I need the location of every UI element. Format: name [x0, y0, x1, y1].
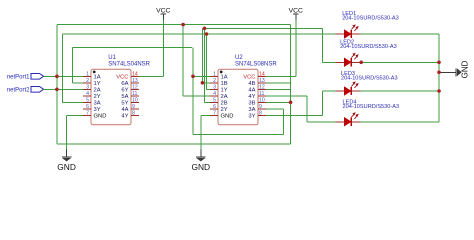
junction LED2 cathode	[359, 61, 363, 65]
LED LED4 204-10SURD/S530-A3	[335, 99, 399, 126]
port netPort2	[7, 87, 44, 94]
svg-text:6A: 6A	[121, 81, 128, 87]
svg-text:1Y: 1Y	[221, 88, 228, 94]
junction netPort2 node	[55, 88, 59, 92]
wire vertical x204.5 to U2 pin5 2B	[204, 28, 206, 102]
svg-text:3Y: 3Y	[94, 107, 101, 113]
wire U2 pin10 3B stub	[266, 101, 291, 103]
svg-text:14: 14	[259, 71, 265, 77]
LED LED1 204-10SURD/S530-A3	[335, 11, 399, 38]
junction netPort1 node	[55, 75, 59, 79]
wire vertical x62.5 to LED1 net	[62, 34, 64, 102]
wire netPort1 to U1 pin1 1A	[44, 75, 83, 77]
ground GND3	[439, 60, 469, 78]
wire U2 GND down to GND2	[200, 115, 202, 149]
wire U1 pin2 1Y stub	[73, 82, 84, 84]
svg-text:5: 5	[213, 97, 216, 103]
svg-text:10: 10	[259, 97, 265, 103]
svg-text:3B: 3B	[248, 101, 255, 107]
wire vertical x72.5	[72, 47, 74, 82]
wire LED2 anode	[323, 61, 336, 63]
svg-text:GND: GND	[221, 114, 234, 120]
svg-text:5: 5	[86, 97, 89, 103]
svg-text:3: 3	[86, 84, 89, 90]
wire LED2 cathode to bus	[361, 61, 439, 63]
junction U2 1A node	[191, 75, 195, 79]
svg-text:6: 6	[213, 104, 216, 110]
wire VCC2 drop x295.8	[295, 20, 297, 77]
svg-text:13: 13	[132, 78, 138, 84]
svg-text:netPort1: netPort1	[7, 75, 30, 81]
svg-text:4B: 4B	[248, 81, 255, 87]
wire U2 pin12 4A right	[266, 88, 291, 90]
LED LED2 204-10SURD/S530-A3	[335, 39, 396, 66]
svg-text:10: 10	[132, 97, 138, 103]
svg-text:4: 4	[86, 91, 89, 97]
svg-text:9: 9	[259, 104, 262, 110]
svg-text:12: 12	[259, 84, 265, 90]
svg-text:204-10SURD/S530-A3: 204-10SURD/S530-A3	[341, 76, 398, 82]
svg-text:204-10SURD/S530-A3: 204-10SURD/S530-A3	[340, 44, 397, 50]
svg-text:U2: U2	[235, 55, 243, 61]
wire U2 pin5 2B stub	[205, 101, 211, 103]
svg-text:5Y: 5Y	[121, 101, 128, 107]
wire vertical x322.6 to LED2	[322, 28, 324, 62]
wire U2 GND left	[201, 114, 210, 116]
svg-text:GND: GND	[57, 162, 76, 172]
wire U2 pin8 3Y right	[266, 114, 322, 116]
svg-text:netPort2: netPort2	[7, 88, 30, 94]
svg-text:12: 12	[132, 84, 138, 90]
wire top rail y24.6	[57, 24, 291, 26]
wire net vertical x56.9	[56, 25, 58, 144]
wire mid rail y134.5	[193, 134, 284, 136]
wire LED1 cathode to bus	[361, 33, 439, 35]
svg-text:VCC: VCC	[116, 75, 128, 81]
wire vertical x193	[192, 47, 194, 134]
svg-text:SN74LS08NSR: SN74LS08NSR	[235, 62, 277, 68]
wire LED3 anode	[322, 90, 335, 92]
wire VCC2 to U2 pin14	[266, 75, 296, 77]
svg-text:2Y: 2Y	[221, 107, 228, 113]
wire bottom rail y144	[57, 143, 291, 145]
junction bus LED2	[437, 61, 441, 65]
svg-text:1: 1	[86, 71, 89, 77]
svg-text:1A: 1A	[221, 75, 228, 81]
svg-text:6Y: 6Y	[121, 88, 128, 94]
junction bus LED3	[437, 89, 441, 93]
wire y47.4 horizontal	[73, 46, 193, 48]
port netPort1	[7, 74, 44, 81]
power VCC2	[289, 8, 303, 21]
svg-text:8: 8	[259, 110, 262, 116]
svg-text:3Y: 3Y	[248, 114, 255, 120]
wire vertical x322.3 to LED3	[321, 91, 323, 115]
svg-text:1B: 1B	[221, 81, 228, 87]
svg-text:4Y: 4Y	[248, 94, 255, 100]
ground GND2	[191, 149, 210, 172]
svg-text:7: 7	[213, 110, 216, 116]
wire vertical x283.5 to U2 pin9 3A	[283, 109, 285, 135]
svg-text:1Y: 1Y	[94, 81, 101, 87]
wire LED4 cathode to bus	[361, 121, 439, 123]
svg-text:GND: GND	[460, 60, 469, 78]
wire vertical x206.5 to U2 pin3 1Y	[206, 34, 208, 89]
svg-text:2: 2	[213, 78, 216, 84]
svg-text:VCC: VCC	[243, 75, 255, 81]
svg-text:7: 7	[86, 110, 89, 116]
ground GND1	[57, 149, 76, 172]
svg-text:4A: 4A	[248, 88, 255, 94]
wire vertical x183.1 to U2 pin4 2A	[182, 25, 184, 96]
svg-text:2Y: 2Y	[94, 94, 101, 100]
svg-text:204-10SURD/S530-A3: 204-10SURD/S530-A3	[342, 16, 399, 22]
svg-text:204-10SURD/S530-A3: 204-10SURD/S530-A3	[343, 104, 400, 110]
IC U1 SN74LS04NSR hex inverter	[83, 55, 151, 125]
wire U1 pin5 3A stub	[63, 101, 84, 103]
junction bus GND3	[437, 71, 441, 75]
svg-text:9: 9	[132, 104, 135, 110]
wire LED4 anode	[307, 121, 335, 123]
wire U2 pin11 4Y right	[266, 95, 307, 97]
wire vertical x202.4 to U2 pin2 1B	[201, 28, 203, 83]
LED LED3 204-10SURD/S530-A3	[335, 71, 397, 95]
wire U2 pin2 1B stub	[202, 82, 210, 84]
junction U2 3B node	[289, 101, 293, 105]
wire VCC1 to U1 pin14	[139, 75, 163, 77]
wire U2 pin1 1A stub	[193, 75, 210, 77]
wire netPort2 to U1 pin3 2A	[44, 88, 83, 90]
svg-text:2A: 2A	[94, 88, 101, 94]
svg-text:11: 11	[259, 91, 264, 97]
svg-text:SN74LS04NSR: SN74LS04NSR	[108, 62, 150, 68]
wire U2 pin13 4B right	[266, 82, 291, 84]
wire LED1 anode rail y34	[63, 33, 336, 35]
svg-text:4Y: 4Y	[121, 114, 128, 120]
svg-text:VCC: VCC	[289, 8, 303, 15]
wire vertical x290.6	[290, 25, 292, 144]
svg-text:GND: GND	[94, 114, 107, 120]
svg-text:1: 1	[213, 71, 216, 77]
svg-text:U1: U1	[108, 55, 116, 61]
wire y28.3 horizontal	[202, 27, 322, 29]
IC U2 SN74LS08NSR quad AND gate	[210, 55, 277, 125]
svg-text:2A: 2A	[221, 94, 228, 100]
wire U1 GND down to GND1	[66, 115, 68, 149]
power VCC1	[156, 8, 170, 21]
svg-text:4A: 4A	[121, 107, 128, 113]
svg-text:5A: 5A	[121, 94, 128, 100]
svg-text:4: 4	[213, 91, 216, 97]
wire U2 pin3 1Y stub	[207, 88, 211, 90]
svg-text:GND: GND	[191, 162, 210, 172]
svg-text:14: 14	[132, 71, 138, 77]
wire U1 GND left	[67, 114, 84, 116]
wire vertical x307 to LED4	[306, 96, 308, 122]
wire U2 pin9 3A stub	[266, 108, 284, 110]
svg-text:3: 3	[213, 84, 216, 90]
wire U2 pin4 2A stub	[183, 95, 210, 97]
svg-text:VCC: VCC	[156, 8, 170, 15]
svg-text:2: 2	[86, 78, 89, 84]
svg-text:13: 13	[259, 78, 265, 84]
svg-text:6: 6	[86, 104, 89, 110]
svg-text:3A: 3A	[94, 101, 101, 107]
junction U2 1B node	[201, 81, 205, 85]
svg-text:3A: 3A	[248, 107, 255, 113]
svg-text:2B: 2B	[221, 101, 228, 107]
wire VCC1 drop x163.3	[162, 20, 164, 77]
svg-text:1A: 1A	[94, 75, 101, 81]
wire cathode bus x439	[438, 34, 440, 122]
svg-text:11: 11	[132, 91, 137, 97]
junction top rail x183.1	[181, 23, 185, 27]
wire LED3 cathode to bus	[361, 90, 439, 92]
junction y28.3 x204.5	[203, 27, 207, 31]
junction LED1 rail x206.5	[205, 32, 209, 36]
svg-text:8: 8	[132, 110, 135, 116]
